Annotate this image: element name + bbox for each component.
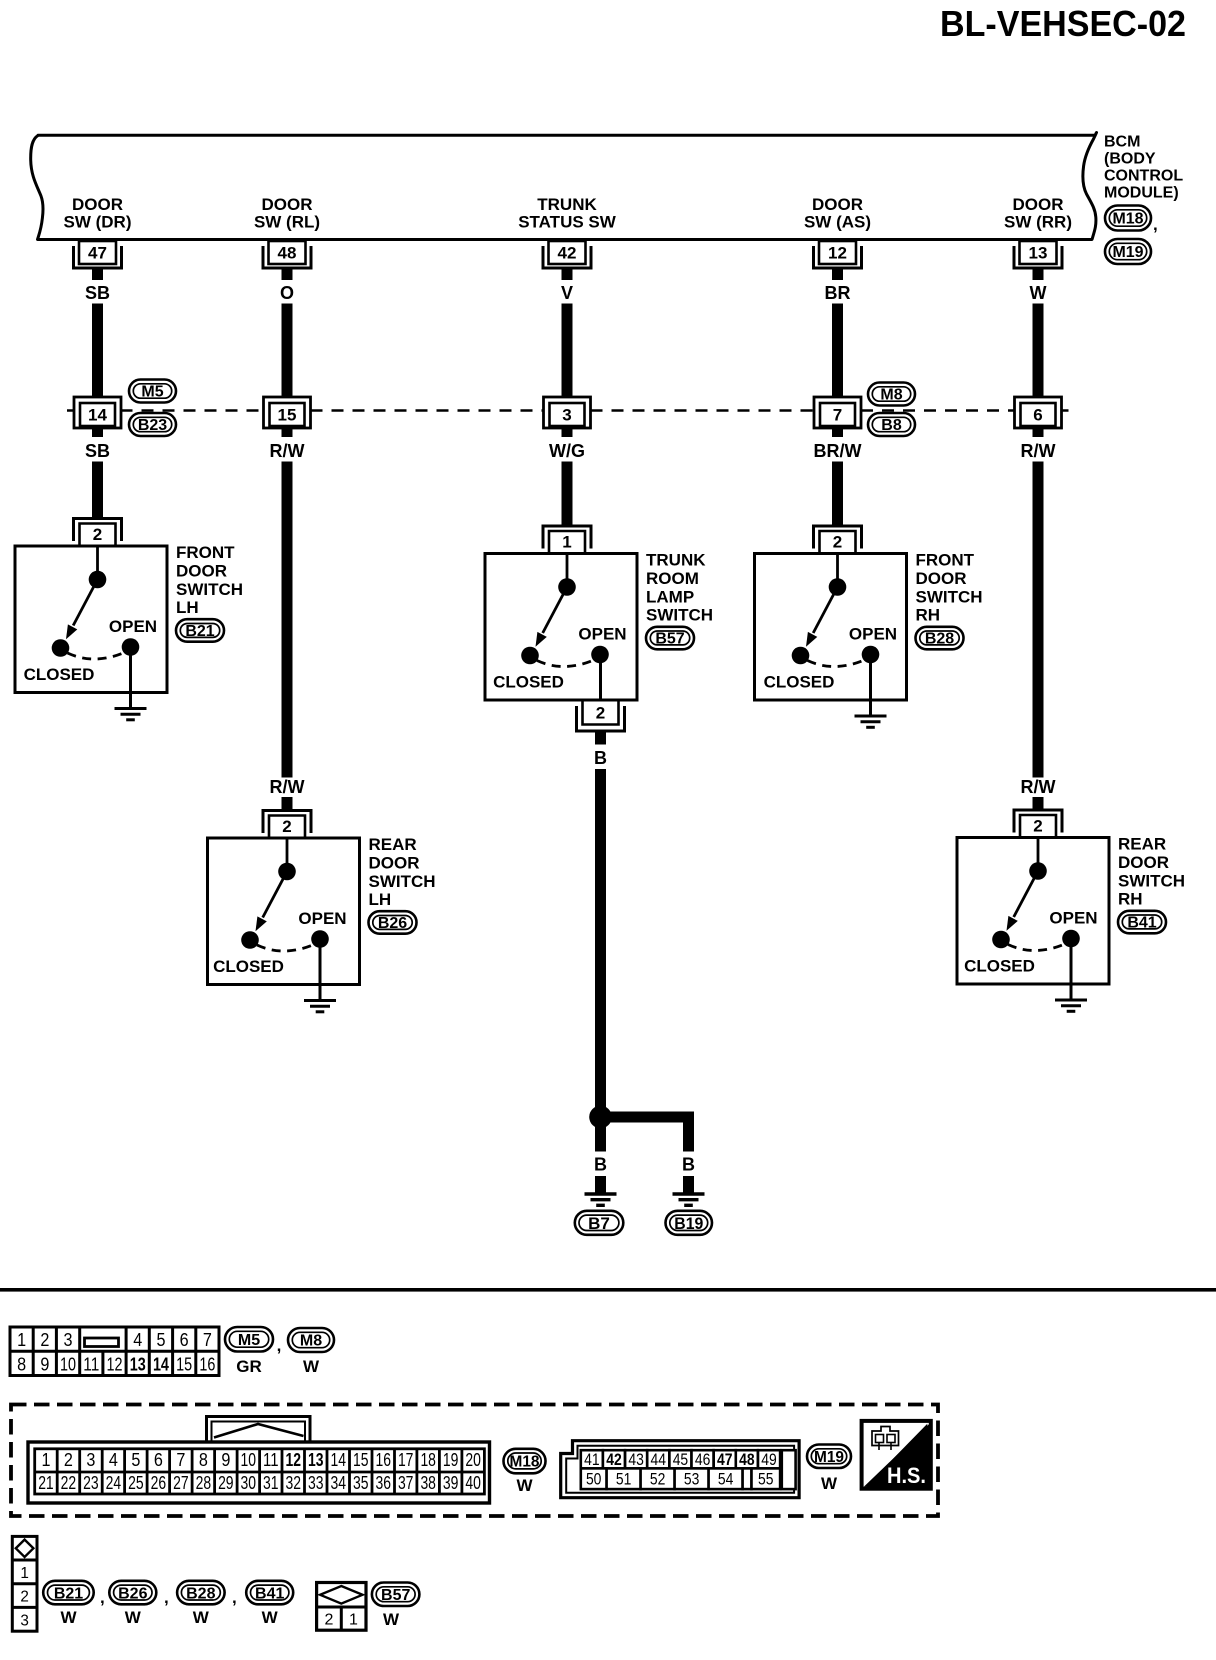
- connector oval M18 (face): [504, 1449, 546, 1474]
- H.S. harness-side emblem: [862, 1421, 931, 1489]
- svg-text:CLOSED: CLOSED: [213, 957, 284, 976]
- svg-text:B21: B21: [185, 623, 214, 640]
- svg-text:29: 29: [218, 1473, 234, 1493]
- svg-text:16: 16: [199, 1354, 215, 1374]
- svg-text:M18: M18: [510, 1454, 540, 1471]
- svg-text:6: 6: [1033, 406, 1042, 425]
- BCM pin 47: [74, 241, 122, 268]
- svg-text:B28: B28: [186, 1585, 215, 1602]
- svg-text:19: 19: [443, 1450, 459, 1470]
- svg-text:45: 45: [673, 1450, 689, 1469]
- svg-text:DOOR: DOOR: [176, 562, 227, 581]
- svg-text:R/W: R/W: [1021, 441, 1056, 461]
- svg-text:24: 24: [106, 1473, 122, 1493]
- svg-text:47: 47: [88, 244, 107, 263]
- svg-text:M5: M5: [141, 384, 163, 401]
- svg-text:W/G: W/G: [549, 441, 585, 461]
- svg-text:2: 2: [325, 1611, 334, 1628]
- BCM side text: [1104, 134, 1183, 202]
- connector oval M5: [129, 380, 176, 403]
- wire segment left branch below junction: [595, 1126, 606, 1152]
- svg-text:32: 32: [286, 1473, 302, 1493]
- svg-text:H.S.: H.S.: [887, 1463, 926, 1488]
- connector face view B21/B26/B28/B41 vertical 4-cell: [12, 1536, 37, 1631]
- svg-text:10: 10: [60, 1354, 76, 1374]
- svg-text:47: 47: [717, 1450, 733, 1469]
- svg-text:B: B: [594, 748, 607, 768]
- svg-text:REAR: REAR: [369, 835, 417, 854]
- rear door switch RH box: [957, 838, 1109, 985]
- svg-text:1: 1: [41, 1450, 50, 1470]
- wire segment below connector, colour R/W: [1021, 428, 1056, 778]
- wire segment from BCM pin, colour O: [280, 268, 294, 397]
- rear door switch LH dashed travel arc: [257, 944, 315, 951]
- svg-text:W: W: [1030, 283, 1047, 303]
- svg-text:49: 49: [761, 1450, 777, 1469]
- connector oval B57 (face): [372, 1583, 420, 1607]
- front door switch LH pin 2: [74, 519, 122, 547]
- svg-text:39: 39: [443, 1473, 459, 1493]
- ground symbol B7: [585, 1194, 617, 1205]
- svg-text:42: 42: [606, 1450, 622, 1469]
- svg-text:35: 35: [353, 1473, 369, 1493]
- connector oval B19: [666, 1211, 713, 1235]
- svg-text:R/W: R/W: [270, 777, 305, 797]
- BCM pin 48: [263, 241, 311, 268]
- svg-text:22: 22: [61, 1473, 77, 1493]
- svg-text:CLOSED: CLOSED: [764, 673, 835, 692]
- svg-text:26: 26: [151, 1473, 167, 1493]
- svg-text:BR/W: BR/W: [814, 441, 862, 461]
- svg-text:,: ,: [1153, 215, 1158, 234]
- svg-text:31: 31: [263, 1473, 279, 1493]
- BCM terminal label STATUS SW: [518, 195, 617, 232]
- svg-text:54: 54: [718, 1470, 734, 1489]
- svg-text:52: 52: [650, 1470, 666, 1489]
- svg-text:B: B: [594, 1155, 607, 1175]
- svg-text:2: 2: [64, 1450, 73, 1470]
- svg-text:14: 14: [88, 406, 107, 425]
- svg-text:(BODY: (BODY: [1104, 151, 1156, 168]
- switch name label B26: [369, 835, 436, 909]
- rear door switch LH CLOSED contact: [241, 931, 259, 949]
- svg-text:DOOR: DOOR: [369, 854, 420, 873]
- rear door switch RH pin 2: [1014, 810, 1062, 838]
- svg-text:DOOR: DOOR: [812, 195, 863, 214]
- svg-text:W: W: [303, 1357, 320, 1376]
- svg-text:11: 11: [83, 1354, 99, 1374]
- svg-text:B23: B23: [138, 417, 167, 434]
- connector oval B57: [646, 627, 694, 650]
- switch name label B28: [916, 551, 983, 625]
- svg-text:3: 3: [562, 406, 571, 425]
- ground symbol at front door switch RH: [855, 716, 887, 727]
- svg-text:M8: M8: [300, 1333, 322, 1350]
- svg-text:CLOSED: CLOSED: [24, 665, 95, 684]
- svg-text:12: 12: [286, 1450, 302, 1470]
- trunk room lamp switch dashed travel arc: [537, 660, 595, 667]
- wire segment trunk switch pin 2, colour B: [594, 731, 607, 1108]
- ground symbol at rear door switch LH: [304, 1001, 336, 1012]
- connector oval B23: [129, 413, 176, 436]
- svg-text:2: 2: [596, 704, 605, 723]
- inline connector terminal 14: [74, 397, 121, 428]
- svg-text:BR: BR: [825, 283, 851, 303]
- wire stub to ground B7: [595, 1176, 606, 1193]
- svg-text:2: 2: [93, 525, 102, 544]
- wire segment to rear door switch, colour R/W: [270, 777, 305, 810]
- svg-text:B26: B26: [378, 915, 407, 932]
- svg-text:DOOR: DOOR: [262, 195, 313, 214]
- trunk room lamp switch box: [485, 554, 637, 701]
- svg-text:30: 30: [241, 1473, 257, 1493]
- inline connector terminal 15: [264, 397, 311, 428]
- connector oval B28: [916, 627, 964, 650]
- connector face view M19 15-pin: [561, 1441, 799, 1498]
- svg-text:OPEN: OPEN: [298, 909, 346, 928]
- svg-text:B28: B28: [925, 631, 954, 648]
- ground symbol at rear door switch RH: [1055, 1000, 1087, 1011]
- svg-text:R/W: R/W: [1021, 777, 1056, 797]
- svg-text:B41: B41: [255, 1585, 284, 1602]
- wire segment right branch down: [683, 1123, 694, 1152]
- svg-text:W: W: [821, 1474, 838, 1493]
- svg-text:SB: SB: [85, 283, 110, 303]
- svg-text:23: 23: [83, 1473, 99, 1493]
- svg-text:LH: LH: [176, 598, 199, 617]
- BCM pin 42: [543, 241, 591, 268]
- svg-text:46: 46: [695, 1450, 711, 1469]
- front door switch RH internal contact lever: [806, 555, 846, 647]
- front door switch LH OPEN contact: [122, 638, 140, 656]
- svg-text:48: 48: [278, 244, 297, 263]
- svg-text:ROOM: ROOM: [646, 569, 699, 588]
- svg-text:2: 2: [1033, 817, 1042, 836]
- rear door switch RH dashed travel arc: [1008, 944, 1066, 951]
- svg-text:M5: M5: [238, 1332, 260, 1349]
- trunk room lamp switch internal contact lever: [536, 555, 576, 647]
- svg-text:SB: SB: [85, 441, 110, 461]
- svg-text:8: 8: [199, 1450, 208, 1470]
- svg-text:18: 18: [420, 1450, 436, 1470]
- svg-text:CONTROL: CONTROL: [1104, 168, 1183, 185]
- separator line: [0, 1288, 1216, 1292]
- BCM terminal label SW (DR): [64, 195, 132, 232]
- rear door switch RH CLOSED contact: [992, 931, 1010, 949]
- svg-text:2: 2: [282, 817, 291, 836]
- svg-text:3: 3: [86, 1450, 95, 1470]
- svg-text:OPEN: OPEN: [578, 625, 626, 644]
- svg-text:44: 44: [651, 1450, 667, 1469]
- front door switch RH box: [755, 554, 907, 701]
- switch name label B21: [176, 543, 243, 617]
- svg-text:SW (AS): SW (AS): [804, 213, 871, 232]
- svg-text:1: 1: [20, 1565, 29, 1582]
- svg-text:10: 10: [241, 1450, 257, 1470]
- wire segment from BCM pin, colour SB: [85, 268, 110, 397]
- svg-text:RH: RH: [916, 606, 941, 625]
- wire stub to ground B19: [683, 1176, 694, 1193]
- svg-text:B7: B7: [588, 1214, 610, 1233]
- svg-text:M18: M18: [1113, 211, 1144, 228]
- svg-text:CLOSED: CLOSED: [964, 957, 1035, 976]
- switch name label B57: [646, 551, 713, 625]
- trunk room lamp switch CLOSED contact: [521, 647, 539, 665]
- switch name label B41: [1118, 835, 1185, 909]
- svg-text:GR: GR: [236, 1357, 262, 1376]
- connector oval M18 (BCM): [1105, 206, 1151, 231]
- svg-text:1: 1: [562, 533, 571, 552]
- svg-text:V: V: [561, 283, 573, 303]
- rear door switch RH internal contact lever: [1007, 839, 1047, 931]
- svg-text:M19: M19: [814, 1449, 844, 1466]
- wire from front door switch LH OPEN contact to ground: [129, 647, 132, 707]
- svg-text:W: W: [262, 1608, 279, 1627]
- rear door switch RH OPEN contact: [1062, 930, 1080, 948]
- svg-text:W: W: [125, 1608, 142, 1627]
- svg-text:STATUS SW: STATUS SW: [518, 213, 617, 232]
- connector oval B41 (face): [246, 1581, 293, 1605]
- svg-text:13: 13: [1029, 244, 1048, 263]
- svg-text:MODULE): MODULE): [1104, 185, 1179, 202]
- svg-text:W: W: [193, 1608, 210, 1627]
- svg-text:28: 28: [196, 1473, 212, 1493]
- front door switch RH OPEN contact: [862, 646, 880, 664]
- svg-text:33: 33: [308, 1473, 324, 1493]
- inline connector terminal 3: [544, 397, 591, 428]
- junction node of ground wires: [589, 1106, 612, 1129]
- svg-text:7: 7: [833, 406, 842, 425]
- svg-text:B: B: [682, 1155, 695, 1175]
- svg-text:5: 5: [131, 1450, 140, 1470]
- wire from trunk room lamp switch OPEN contact to pin 2: [599, 655, 602, 701]
- svg-text:21: 21: [38, 1473, 54, 1493]
- svg-text:55: 55: [758, 1470, 774, 1489]
- wire segment below connector, colour W/G: [549, 428, 585, 525]
- dashed harness-view box: [11, 1405, 938, 1517]
- trunk room lamp switch OPEN contact: [591, 646, 609, 664]
- svg-text:SW (RL): SW (RL): [254, 213, 320, 232]
- BCM terminal label SW (RR): [1004, 195, 1072, 232]
- svg-text:B21: B21: [54, 1585, 83, 1602]
- svg-text:O: O: [280, 283, 294, 303]
- svg-text:3: 3: [64, 1330, 73, 1350]
- svg-text:SWITCH: SWITCH: [369, 872, 436, 891]
- wire segment from BCM pin, colour BR: [825, 268, 851, 397]
- svg-text:1: 1: [349, 1611, 358, 1628]
- svg-text:7: 7: [203, 1330, 212, 1350]
- svg-text:2: 2: [833, 533, 842, 552]
- svg-text:8: 8: [17, 1354, 26, 1374]
- svg-text:OPEN: OPEN: [109, 617, 157, 636]
- svg-text:,: ,: [100, 1588, 105, 1607]
- svg-text:B8: B8: [881, 417, 902, 434]
- wire segment below connector, colour R/W: [270, 428, 305, 778]
- trunk room lamp switch pin 2: [577, 700, 625, 731]
- front door switch RH dashed travel arc: [808, 660, 866, 667]
- front door switch RH pin 2: [814, 526, 862, 554]
- wire from front door switch RH OPEN contact to ground: [869, 655, 872, 715]
- svg-text:SWITCH: SWITCH: [1118, 872, 1185, 891]
- svg-text:SW (DR): SW (DR): [64, 213, 132, 232]
- ground symbol at front door switch LH: [115, 709, 147, 720]
- svg-text:4: 4: [133, 1330, 142, 1350]
- svg-text:11: 11: [263, 1450, 279, 1470]
- svg-text:RH: RH: [1118, 890, 1143, 909]
- svg-text:LAMP: LAMP: [646, 588, 694, 607]
- svg-text:SWITCH: SWITCH: [916, 588, 983, 607]
- svg-text:9: 9: [221, 1450, 230, 1470]
- svg-text:OPEN: OPEN: [1049, 909, 1097, 928]
- svg-text:13: 13: [130, 1354, 146, 1374]
- svg-text:13: 13: [308, 1450, 324, 1470]
- svg-text:16: 16: [375, 1450, 391, 1470]
- svg-text:B57: B57: [655, 631, 684, 648]
- svg-text:DOOR: DOOR: [1013, 195, 1064, 214]
- svg-text:7: 7: [176, 1450, 185, 1470]
- connector oval B26 (face): [109, 1581, 156, 1605]
- svg-text:DOOR: DOOR: [1118, 853, 1169, 872]
- svg-text:4: 4: [109, 1450, 118, 1470]
- svg-text:43: 43: [628, 1450, 644, 1469]
- front door switch RH CLOSED contact: [792, 647, 810, 665]
- harness connector dashed link line M5/B23 - M8/B8: [67, 409, 1069, 412]
- svg-text:5: 5: [156, 1330, 165, 1350]
- connector oval B7: [575, 1211, 624, 1235]
- svg-text:17: 17: [398, 1450, 414, 1470]
- BCM pin 13: [1014, 241, 1062, 268]
- connector oval M19 (face): [807, 1445, 851, 1469]
- svg-text:B57: B57: [381, 1587, 410, 1604]
- svg-text:40: 40: [465, 1473, 481, 1493]
- svg-text:M8: M8: [880, 387, 902, 404]
- connector oval B41: [1118, 911, 1166, 934]
- svg-text:DOOR: DOOR: [916, 569, 967, 588]
- connector oval B26: [369, 911, 417, 934]
- wire from rear door switch LH OPEN contact to ground: [319, 939, 322, 999]
- svg-text:FRONT: FRONT: [176, 543, 235, 562]
- svg-text:1: 1: [17, 1330, 26, 1350]
- svg-text:W: W: [516, 1476, 533, 1495]
- wire segment junction to right ground branch: [601, 1112, 695, 1123]
- inline connector terminal 7: [814, 397, 861, 428]
- svg-text:FRONT: FRONT: [916, 551, 975, 570]
- svg-text:15: 15: [176, 1354, 192, 1374]
- svg-text:41: 41: [584, 1450, 600, 1469]
- wire segment below connector, colour BR/W: [814, 428, 862, 525]
- svg-text:12: 12: [828, 244, 847, 263]
- rear door switch LH pin 2: [263, 811, 311, 839]
- BCM terminal label SW (AS): [804, 195, 871, 232]
- connector face view M18 40-pin: [28, 1417, 490, 1504]
- svg-text:REAR: REAR: [1118, 835, 1166, 854]
- BCM (Body Control Module) box: [31, 133, 1097, 240]
- svg-text:9: 9: [40, 1354, 49, 1374]
- connector oval M19 (BCM): [1105, 239, 1151, 264]
- connector oval M5 (face): [225, 1327, 273, 1352]
- svg-text:37: 37: [398, 1473, 414, 1493]
- svg-text:14: 14: [153, 1354, 169, 1374]
- connector face view B57 2-pin: [317, 1583, 366, 1631]
- svg-text:SWITCH: SWITCH: [176, 580, 243, 599]
- svg-text:38: 38: [420, 1473, 436, 1493]
- ground symbol B19: [673, 1194, 705, 1205]
- svg-text:R/W: R/W: [270, 441, 305, 461]
- svg-text:34: 34: [330, 1473, 346, 1493]
- svg-text:2: 2: [20, 1589, 29, 1606]
- svg-text:DOOR: DOOR: [72, 195, 123, 214]
- rear door switch LH internal contact lever: [256, 840, 296, 932]
- front door switch LH box: [15, 546, 167, 693]
- svg-text:6: 6: [180, 1330, 189, 1350]
- trunk room lamp switch pin 1: [543, 526, 591, 554]
- front door switch LH internal contact lever: [66, 548, 106, 640]
- inline connector terminal 6: [1015, 397, 1062, 428]
- svg-text:BCM: BCM: [1104, 134, 1140, 151]
- wire segment from BCM pin, colour W: [1030, 268, 1047, 397]
- wire from rear door switch RH OPEN contact to ground: [1070, 939, 1073, 999]
- svg-text:W: W: [383, 1610, 400, 1629]
- svg-text:SWITCH: SWITCH: [646, 606, 713, 625]
- svg-text:LH: LH: [369, 890, 392, 909]
- svg-text:48: 48: [739, 1450, 755, 1469]
- svg-text:,: ,: [164, 1588, 169, 1607]
- connector oval M8 (face): [288, 1328, 334, 1352]
- svg-text:W: W: [60, 1608, 77, 1627]
- svg-text:CLOSED: CLOSED: [493, 673, 564, 692]
- svg-text:SW (RR): SW (RR): [1004, 213, 1072, 232]
- BCM pin 12: [814, 241, 862, 268]
- svg-text:TRUNK: TRUNK: [646, 551, 706, 570]
- svg-text:50: 50: [586, 1470, 602, 1489]
- connector oval B28 (face): [177, 1581, 225, 1605]
- svg-text:51: 51: [616, 1470, 632, 1489]
- connector oval B21: [176, 619, 224, 642]
- svg-text:12: 12: [107, 1354, 123, 1374]
- connector oval M8: [868, 383, 915, 406]
- svg-text:,: ,: [232, 1588, 237, 1607]
- svg-text:14: 14: [330, 1450, 346, 1470]
- wire segment to rear door switch, colour R/W: [1021, 777, 1056, 810]
- svg-text:6: 6: [154, 1450, 163, 1470]
- svg-text:20: 20: [465, 1450, 481, 1470]
- svg-text:27: 27: [173, 1473, 189, 1493]
- svg-text:TRUNK: TRUNK: [537, 195, 597, 214]
- wire segment below connector, colour SB: [85, 428, 110, 517]
- svg-text:25: 25: [128, 1473, 144, 1493]
- front door switch LH CLOSED contact: [52, 639, 70, 657]
- svg-text:M19: M19: [1113, 244, 1144, 261]
- rear door switch LH OPEN contact: [311, 930, 329, 948]
- svg-text:3: 3: [20, 1612, 29, 1629]
- svg-text:B26: B26: [118, 1585, 147, 1602]
- svg-text:B41: B41: [1127, 915, 1156, 932]
- svg-text:B19: B19: [674, 1214, 703, 1233]
- wire segment from BCM pin, colour V: [561, 268, 573, 397]
- front door switch LH dashed travel arc: [68, 652, 126, 659]
- svg-text:53: 53: [684, 1470, 700, 1489]
- connector face view M5/M8 16-pin: [10, 1327, 219, 1376]
- svg-text:2: 2: [40, 1330, 49, 1350]
- svg-text:BL-VEHSEC-02: BL-VEHSEC-02: [940, 3, 1186, 44]
- rear door switch LH box: [208, 838, 360, 985]
- svg-text:OPEN: OPEN: [849, 625, 897, 644]
- svg-text:42: 42: [558, 244, 577, 263]
- connector oval B8: [868, 413, 915, 436]
- svg-text:15: 15: [353, 1450, 369, 1470]
- BCM terminal label SW (RL): [254, 195, 320, 232]
- svg-text:36: 36: [375, 1473, 391, 1493]
